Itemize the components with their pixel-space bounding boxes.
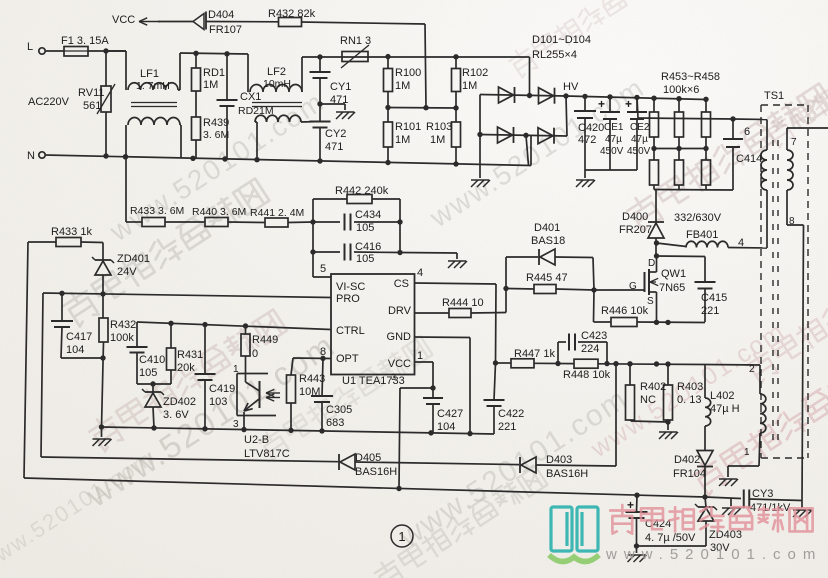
svg-text:1. 7mH: 1. 7mH: [136, 80, 170, 92]
svg-text:CTRL: CTRL: [336, 325, 365, 337]
svg-text:FR207: FR207: [619, 224, 652, 236]
svg-text:103: 103: [209, 396, 227, 408]
svg-text:1M: 1M: [395, 80, 410, 92]
svg-text:4. 7µ /50V: 4. 7µ /50V: [645, 532, 696, 544]
svg-text:QW1: QW1: [661, 268, 686, 280]
svg-text:471: 471: [325, 141, 343, 153]
svg-text:0. 13: 0. 13: [677, 394, 701, 406]
svg-text:R101: R101: [395, 121, 421, 133]
svg-text:RL255×4: RL255×4: [532, 49, 577, 61]
svg-text:R441 2. 4M: R441 2. 4M: [250, 207, 304, 219]
svg-text:CE1: CE1: [604, 122, 624, 133]
svg-text:1M: 1M: [203, 79, 218, 91]
svg-text:1M: 1M: [430, 134, 445, 146]
svg-text:G: G: [629, 281, 637, 292]
svg-text:47µ: 47µ: [605, 134, 622, 145]
svg-text:RD1: RD1: [203, 67, 225, 79]
svg-text:C420: C420: [578, 122, 604, 134]
svg-text:+: +: [625, 97, 632, 111]
svg-text:4: 4: [738, 237, 744, 249]
svg-text:R453~R458: R453~R458: [661, 71, 720, 83]
svg-text:LF1: LF1: [140, 68, 159, 80]
svg-text:R431: R431: [177, 349, 203, 361]
svg-text:10M: 10M: [299, 386, 320, 398]
svg-text:2: 2: [749, 364, 755, 375]
svg-text:D401: D401: [534, 222, 560, 234]
svg-text:AC220V: AC220V: [28, 96, 70, 108]
svg-text:450V: 450V: [600, 146, 624, 157]
svg-text:3. 6M: 3. 6M: [203, 129, 229, 141]
svg-text:6: 6: [744, 126, 750, 138]
svg-text:224: 224: [581, 343, 599, 355]
svg-text:R448 10k: R448 10k: [563, 369, 611, 381]
svg-text:105: 105: [356, 253, 374, 265]
svg-text:NC: NC: [640, 394, 656, 406]
svg-text:CE2: CE2: [630, 122, 650, 133]
svg-text:24V: 24V: [117, 266, 137, 278]
svg-text:C416: C416: [355, 241, 381, 253]
svg-text:D403: D403: [546, 454, 572, 466]
svg-text:100k×6: 100k×6: [663, 84, 699, 96]
svg-text:3. 6V: 3. 6V: [163, 409, 189, 421]
svg-text:CY2: CY2: [325, 128, 346, 140]
svg-text:R403: R403: [677, 381, 703, 393]
svg-text:105: 105: [139, 367, 157, 379]
svg-text:683: 683: [326, 417, 344, 429]
svg-text:D: D: [648, 258, 655, 269]
svg-text:CY3: CY3: [752, 488, 773, 500]
svg-text:C417: C417: [66, 331, 92, 343]
svg-text:D400: D400: [622, 211, 648, 223]
svg-text:+: +: [598, 97, 605, 111]
svg-text:1: 1: [398, 529, 405, 544]
svg-text:561: 561: [83, 100, 101, 112]
svg-text:R402: R402: [640, 381, 666, 393]
svg-text:RV11: RV11: [78, 87, 105, 99]
svg-text:R445 47: R445 47: [526, 272, 568, 284]
svg-text:450V: 450V: [627, 146, 651, 157]
svg-text:BAS18: BAS18: [531, 235, 565, 247]
svg-text:R432: R432: [110, 319, 136, 331]
svg-text:R103: R103: [426, 121, 452, 133]
svg-text:3: 3: [233, 419, 239, 430]
svg-text:VCC: VCC: [388, 358, 411, 370]
svg-text:R449: R449: [252, 334, 278, 346]
svg-text:FB401: FB401: [686, 229, 718, 241]
svg-text:LF2: LF2: [267, 66, 286, 78]
svg-text:C415: C415: [701, 292, 727, 304]
svg-text:4: 4: [417, 267, 423, 279]
svg-text:CY1: CY1: [330, 81, 351, 93]
svg-text:R444 10: R444 10: [442, 297, 484, 309]
svg-text:1M: 1M: [395, 134, 410, 146]
svg-text:C419: C419: [209, 383, 235, 395]
svg-text:104: 104: [437, 421, 455, 433]
svg-text:C423: C423: [581, 330, 607, 342]
svg-text:PRO: PRO: [336, 293, 360, 305]
svg-text:GND: GND: [387, 331, 412, 343]
svg-text:R100: R100: [395, 67, 421, 79]
svg-text:www.520101.com: www.520101.com: [605, 546, 822, 563]
svg-text:ZD402: ZD402: [163, 396, 196, 408]
svg-text:C410: C410: [139, 354, 165, 366]
svg-text:D101~D104: D101~D104: [532, 34, 591, 46]
svg-text:1: 1: [417, 350, 423, 362]
svg-text:VI-SC: VI-SC: [336, 281, 365, 293]
svg-text:BAS16H: BAS16H: [546, 468, 588, 480]
svg-text:47µ: 47µ: [631, 134, 648, 145]
svg-text:221: 221: [701, 305, 719, 317]
svg-text:OPT: OPT: [336, 353, 359, 365]
svg-text:7N65: 7N65: [659, 282, 685, 294]
svg-text:C414: C414: [736, 153, 762, 165]
svg-text:10mH: 10mH: [263, 78, 291, 90]
svg-text:R102: R102: [462, 67, 488, 79]
svg-text:221: 221: [498, 421, 516, 433]
svg-text:F1 3. 15A: F1 3. 15A: [61, 35, 109, 47]
svg-text:R446 10k: R446 10k: [601, 305, 649, 317]
svg-text:332/630V: 332/630V: [674, 212, 722, 224]
svg-text:R433 1k: R433 1k: [51, 226, 92, 238]
svg-text:BAS16H: BAS16H: [355, 466, 397, 478]
svg-text:1: 1: [744, 447, 750, 458]
svg-text:100k: 100k: [110, 332, 134, 344]
svg-text:TS1: TS1: [764, 90, 784, 102]
svg-text:R440 3. 6M: R440 3. 6M: [192, 206, 246, 218]
svg-text:472: 472: [578, 134, 596, 146]
svg-text:7: 7: [791, 137, 797, 148]
svg-text:R443: R443: [299, 373, 325, 385]
svg-text:FR104: FR104: [673, 468, 706, 480]
svg-text:RN1 3: RN1 3: [340, 35, 371, 47]
svg-text:FR107: FR107: [209, 24, 242, 36]
svg-text:471/1kV: 471/1kV: [750, 502, 791, 514]
svg-text:HV: HV: [563, 81, 579, 93]
svg-text:CX1: CX1: [240, 91, 261, 103]
svg-text:CS: CS: [394, 278, 409, 290]
svg-text:R433 3. 6M: R433 3. 6M: [130, 205, 184, 217]
svg-text:C434: C434: [355, 209, 381, 221]
svg-text:0: 0: [252, 348, 258, 360]
svg-text:ZD403: ZD403: [709, 529, 742, 541]
svg-text:U2-B: U2-B: [244, 434, 269, 446]
svg-text:C305: C305: [326, 404, 352, 416]
svg-text:1M: 1M: [462, 80, 477, 92]
svg-text:D402: D402: [674, 454, 700, 466]
svg-text:5: 5: [320, 263, 326, 275]
svg-text:R442 240k: R442 240k: [335, 185, 389, 197]
svg-text:R432 82k: R432 82k: [268, 8, 316, 20]
svg-text:R447 1k: R447 1k: [514, 348, 555, 360]
svg-text:8: 8: [789, 216, 795, 227]
svg-text:D404: D404: [208, 9, 234, 21]
svg-text:LTV817C: LTV817C: [244, 448, 290, 460]
svg-text:105: 105: [356, 222, 374, 234]
svg-text:R439: R439: [203, 117, 229, 129]
svg-text:DRV: DRV: [388, 305, 412, 317]
svg-text:L: L: [27, 41, 33, 53]
svg-text:C427: C427: [437, 408, 463, 420]
svg-text:C422: C422: [498, 408, 524, 420]
svg-text:47µ H: 47µ H: [710, 403, 740, 415]
svg-text:20k: 20k: [177, 362, 195, 374]
svg-text:VCC: VCC: [112, 14, 135, 26]
svg-text:104: 104: [66, 344, 84, 356]
svg-text:U1 TEA1733: U1 TEA1733: [342, 375, 405, 387]
svg-text:L402: L402: [710, 390, 734, 402]
svg-text:ZD401: ZD401: [117, 253, 150, 265]
svg-text:N: N: [27, 150, 35, 162]
